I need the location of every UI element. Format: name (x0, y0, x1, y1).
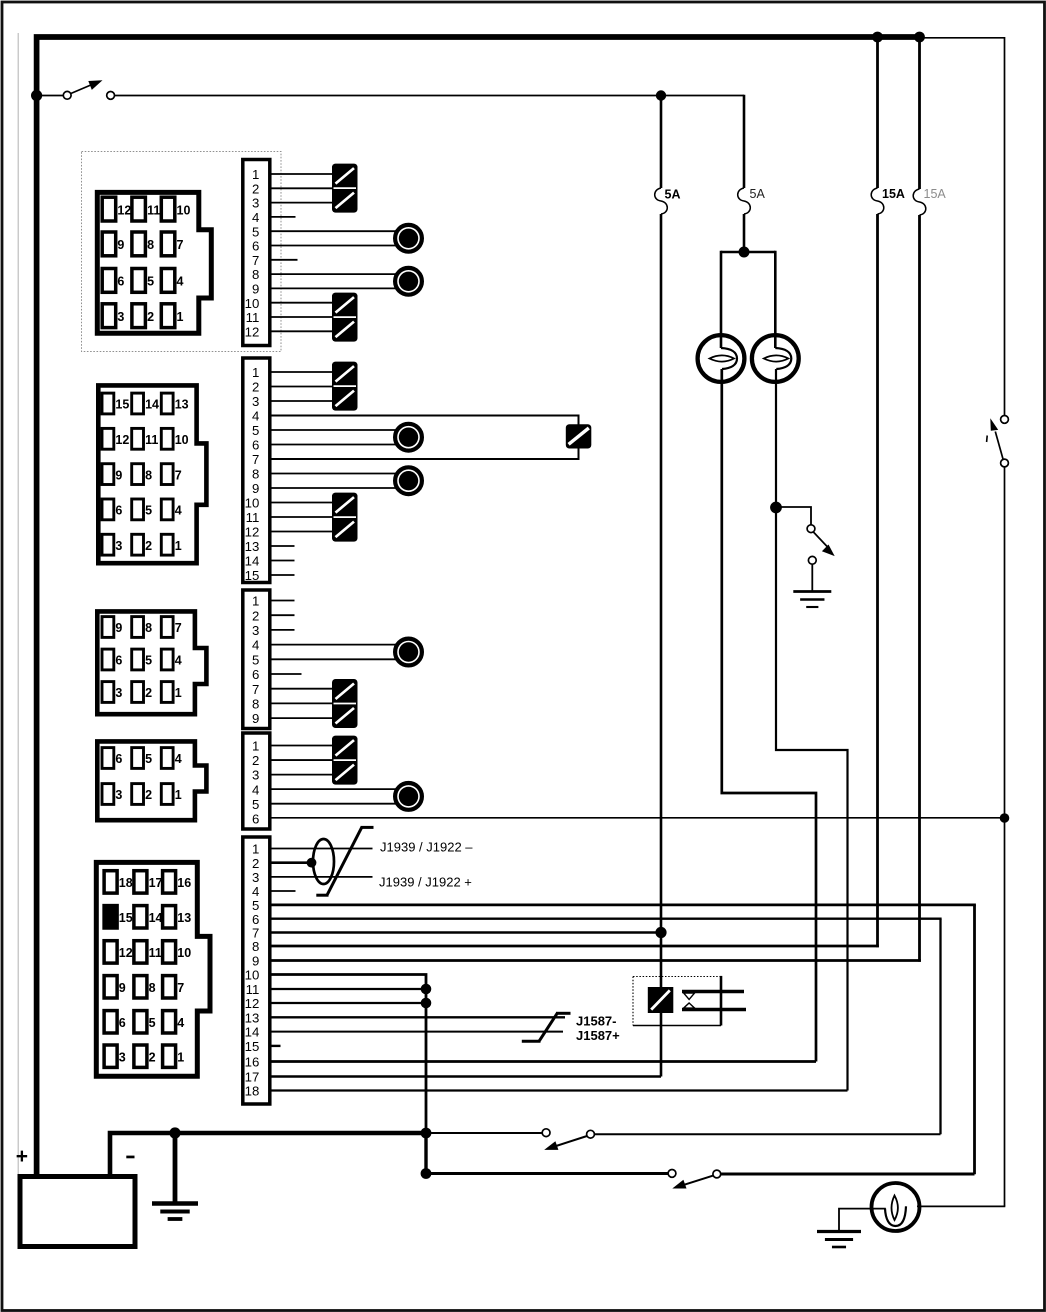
svg-text:10: 10 (245, 496, 260, 511)
terminal strip C1 (pins 1-12) (243, 160, 270, 346)
svg-text:12: 12 (245, 996, 260, 1011)
svg-text:3: 3 (115, 788, 122, 802)
svg-text:4: 4 (252, 782, 259, 797)
svg-text:6: 6 (252, 811, 259, 826)
svg-text:8: 8 (149, 981, 156, 995)
node: switch S1 tap on + bus (31, 90, 42, 101)
svg-text:2: 2 (252, 181, 259, 196)
svg-text:1: 1 (252, 842, 259, 857)
C2 pin5 wire (270, 429, 396, 431)
C5 pin16 wire (lamp L1 return) (270, 1060, 816, 1063)
svg-text:6: 6 (252, 667, 259, 682)
C2 pin1 wire (270, 371, 333, 373)
C4 pin5 wire (270, 803, 396, 805)
svg-text:15A: 15A (882, 187, 905, 201)
svg-text:8: 8 (252, 697, 259, 712)
connector C5 pins (104, 871, 117, 893)
svg-text:J1587+: J1587+ (576, 1028, 620, 1043)
svg-text:4: 4 (252, 210, 259, 225)
C1 pin6 wire (270, 245, 396, 247)
svg-text:2: 2 (252, 753, 259, 768)
speaker SP3 (C2 pins 1-3) (332, 362, 358, 411)
C2 pin8 wire (270, 473, 396, 475)
C5 pin13 wire (J1587 -) (270, 1016, 565, 1018)
svg-text:5: 5 (252, 898, 259, 913)
svg-text:5: 5 (252, 224, 259, 239)
svg-text:6: 6 (115, 752, 122, 766)
wire: + bus to switch S3 (920, 38, 1005, 416)
C2 pin4 wire (speaker +) (270, 416, 579, 425)
svg-text:9: 9 (252, 711, 259, 726)
svg-text:4: 4 (175, 654, 182, 668)
svg-text:7: 7 (175, 621, 182, 635)
svg-text:1: 1 (175, 788, 182, 802)
margin hairline (17, 33, 19, 1175)
svg-text:10: 10 (245, 296, 260, 311)
svg-text:12: 12 (119, 946, 133, 960)
C4 pin2 wire (270, 759, 333, 761)
node: fuse F4 tap on + bus (914, 32, 925, 43)
svg-text:2: 2 (252, 856, 259, 871)
switch S2 (dimmer to ground) (776, 507, 811, 525)
terminal strip C3 (pins 1-9) (243, 590, 270, 729)
svg-text:10: 10 (175, 433, 189, 447)
C2 pin12 wire (270, 531, 333, 533)
C2 pin6 wire (270, 444, 396, 446)
C2 pin10 wire (270, 502, 333, 504)
speaker SP7 (C4 pins 1-3) (332, 736, 358, 785)
wire: F1 to node A / relay coil (660, 214, 663, 987)
ground G1 (battery/chassis) (152, 1201, 198, 1205)
svg-text:6: 6 (119, 1016, 126, 1030)
wire: lamp L3 left lead to ground (839, 1209, 886, 1232)
svg-text:2: 2 (145, 788, 152, 802)
svg-text:8: 8 (252, 939, 259, 954)
svg-text:7: 7 (175, 468, 182, 482)
C2 pin2 wire (270, 386, 333, 388)
connector C3 body (97, 611, 206, 714)
C5 pin14 wire (J1587 +) (270, 1031, 563, 1033)
svg-text:9: 9 (119, 981, 126, 995)
twisted-pair shield loop (313, 839, 334, 884)
wire: link between switch nets (424, 1133, 427, 1174)
svg-text:8: 8 (252, 267, 259, 282)
C3 pin4 wire (270, 644, 396, 646)
C5 pin11 wire (270, 988, 426, 990)
svg-text:1: 1 (252, 739, 259, 754)
svg-text:14: 14 (149, 911, 163, 925)
svg-text:4: 4 (177, 275, 184, 289)
node: pin11 junction (421, 984, 432, 995)
connector plug P6 (C4 pins 4-5) (395, 783, 422, 810)
svg-text:4: 4 (252, 884, 259, 899)
svg-text:18: 18 (119, 876, 133, 890)
speaker SP1 (pins 1-3) (332, 164, 358, 213)
connector plug P5 (C3 pins 4-5) (395, 639, 422, 666)
wire: switched feed to fuses F1/F2 (115, 95, 745, 97)
C5 pin7 wire (to node A) (270, 931, 658, 933)
node: lamp pair split (739, 247, 750, 258)
svg-text:6: 6 (115, 504, 122, 518)
svg-text:8: 8 (145, 468, 152, 482)
C5 pin8 wire (from F3) (270, 945, 879, 948)
svg-text:16: 16 (177, 876, 191, 890)
svg-text:3: 3 (115, 539, 122, 553)
svg-text:6: 6 (115, 654, 122, 668)
wire: battery - riser (110, 1133, 426, 1177)
C2 pin11 wire (270, 516, 333, 518)
terminal strip C5 (pins 1-18) (243, 837, 270, 1104)
C1 pin1 wire (270, 173, 333, 175)
node: chassis ground tap (169, 1127, 180, 1138)
C3 pin6 stub (270, 673, 302, 675)
C5 pin10 wire (270, 975, 426, 1134)
svg-text:J1939 / J1922 –: J1939 / J1922 – (380, 839, 473, 854)
svg-text:1: 1 (252, 594, 259, 609)
svg-text:15A: 15A (924, 187, 947, 201)
C1 pin5 wire (270, 230, 396, 232)
svg-text:7: 7 (177, 238, 184, 252)
svg-text:9: 9 (252, 954, 259, 969)
svg-text:3: 3 (252, 623, 259, 638)
svg-text:10: 10 (177, 946, 191, 960)
svg-text:6: 6 (252, 438, 259, 453)
svg-text:12: 12 (115, 433, 129, 447)
svg-text:7: 7 (177, 981, 184, 995)
node: C5 pins10-12 to switch nets (421, 1128, 432, 1139)
lamp L2 (illumination) (752, 335, 799, 382)
svg-text:16: 16 (245, 1055, 260, 1070)
node: dimmer switch tap on L2 return (770, 502, 782, 514)
svg-text:5: 5 (252, 652, 259, 667)
svg-text:4: 4 (177, 1016, 184, 1030)
svg-text:5: 5 (145, 654, 152, 668)
C1 pin9 wire (270, 287, 396, 289)
svg-text:9: 9 (115, 468, 122, 482)
svg-text:7: 7 (252, 682, 259, 697)
C5 pin9 wire (from F4) (270, 959, 921, 962)
connector plug P3 (C2 pins 5-6) (395, 424, 422, 451)
svg-text:11: 11 (246, 982, 260, 997)
svg-text:7: 7 (252, 452, 259, 467)
svg-text:11: 11 (145, 433, 158, 447)
switch S5 (power antenna) (668, 1170, 676, 1178)
C5 pin17 wire (relay coil return) (270, 1075, 661, 1078)
J1587 data bus symbol (539, 1013, 557, 1041)
svg-text:15: 15 (245, 1039, 260, 1054)
C2 pin14 stub (270, 560, 295, 562)
wire: riser to C5 pin5 (973, 905, 976, 1174)
svg-text:12: 12 (117, 203, 131, 217)
C4 pin4 wire (270, 788, 396, 790)
svg-text:15: 15 (115, 398, 129, 412)
svg-text:13: 13 (245, 1010, 260, 1025)
C1 pin3 wire (270, 202, 333, 204)
C3 pin2 stub (270, 614, 295, 616)
C5 pin6 wire (270, 918, 942, 920)
wire: relay coil to C5 pin17 (660, 1013, 663, 1077)
svg-text:2: 2 (147, 310, 154, 324)
svg-text:7: 7 (252, 253, 259, 268)
connector C1 outline box (82, 152, 282, 352)
svg-text:9: 9 (115, 621, 122, 635)
wire: battery + bus (left and top feed) (37, 37, 921, 1176)
svg-text:5: 5 (252, 797, 259, 812)
wire: riser to C5 pin6 (939, 919, 941, 1134)
svg-text:3: 3 (252, 870, 259, 885)
node: pin12 junction (421, 998, 432, 1009)
svg-text:15: 15 (245, 568, 260, 583)
svg-text:8: 8 (147, 238, 154, 252)
svg-text:5A: 5A (750, 187, 766, 201)
C5 pin5 wire (270, 904, 976, 907)
svg-text:3: 3 (252, 196, 259, 211)
C3 pin5 wire (270, 658, 396, 660)
svg-text:3: 3 (252, 394, 259, 409)
svg-text:4: 4 (252, 409, 259, 424)
svg-text:J1939 / J1922 +: J1939 / J1922 + (379, 874, 472, 889)
wire: to switch S4 (426, 1132, 542, 1134)
C2 pin15 stub (270, 574, 295, 576)
wire: S3 to node B (1004, 467, 1006, 818)
svg-text:2: 2 (149, 1050, 156, 1064)
node A: F1 / connector C5 pin7 junction (655, 927, 666, 938)
svg-text:14: 14 (145, 398, 159, 412)
svg-text:14: 14 (245, 554, 260, 569)
svg-text:17: 17 (245, 1070, 260, 1085)
svg-text:13: 13 (175, 398, 189, 412)
svg-text:15: 15 (119, 911, 133, 925)
svg-text:2: 2 (252, 380, 259, 395)
C5 pin18 wire (lamp L2 return) (270, 1089, 848, 1091)
C4 pin6 wire (to node B) (270, 817, 1005, 819)
C1 pin10 wire (270, 302, 333, 304)
svg-text:13: 13 (245, 539, 260, 554)
wire: lamp L1 return (722, 369, 816, 1062)
C3 pin9 wire (270, 717, 333, 719)
speaker SP5 (C2 pins 4/7) (566, 424, 592, 448)
relay K1 contact 2 (682, 1008, 746, 1011)
svg-text:4: 4 (175, 504, 182, 518)
speaker SP2 (pins 10-12) (332, 293, 358, 342)
connector plug P1 (pins 5-6) (395, 225, 422, 252)
wire: F3 to connector C5 pin8 (876, 214, 879, 947)
svg-text:12: 12 (245, 324, 260, 339)
connector C4 pins (102, 748, 114, 769)
C5 pin4 stub (270, 890, 296, 892)
connector C1 pins (102, 197, 116, 221)
J1939 data bus symbol (327, 827, 362, 895)
node: shield terminator (307, 858, 317, 868)
C5 pin12 wire (270, 1002, 426, 1004)
wire: S4 to riser (594, 1133, 940, 1135)
C2 pin13 stub (270, 545, 295, 547)
C1 pin7 stub (270, 259, 298, 261)
svg-text:5: 5 (147, 275, 154, 289)
ground G3 (lamp L3) (817, 1230, 861, 1233)
svg-text:13: 13 (177, 911, 191, 925)
svg-text:10: 10 (177, 203, 191, 217)
connector C3 pins (102, 617, 114, 638)
C3 pin3 stub (270, 629, 295, 631)
svg-text:8: 8 (252, 467, 259, 482)
C2 pin3 wire (270, 400, 333, 402)
C1 pin12 wire (270, 330, 333, 332)
fuse F2 5A (743, 95, 746, 188)
connector C2 body (98, 385, 206, 563)
svg-text:3: 3 (252, 768, 259, 783)
wire: lamp L2 return (776, 369, 848, 1091)
relay K1 coil (diode block) (648, 987, 674, 1013)
C5 pin3 wire (J1939 +) (270, 876, 373, 878)
svg-text:9: 9 (252, 282, 259, 297)
svg-text:11: 11 (246, 310, 260, 325)
svg-text:4: 4 (252, 638, 259, 653)
svg-text:17: 17 (149, 876, 163, 890)
svg-text:5A: 5A (665, 187, 681, 201)
svg-text:6: 6 (252, 239, 259, 254)
speaker SP4 (C2 pins 10-12) (332, 493, 358, 542)
switch S3 (memory feed) (1001, 416, 1009, 424)
C1 pin11 wire (270, 316, 333, 318)
svg-text:5: 5 (149, 1016, 156, 1030)
svg-text:3: 3 (117, 310, 124, 324)
connector C2 pins (102, 393, 114, 414)
lamp L3 (antenna/amp indicator) (872, 1183, 920, 1231)
C4 pin3 wire (270, 774, 333, 776)
svg-text:11: 11 (246, 510, 260, 525)
C1 pin8 wire (270, 273, 396, 275)
relay K1 outline (632, 977, 634, 1026)
svg-text:3: 3 (119, 1050, 126, 1064)
wire: node B down to lamp L3 (1004, 818, 1006, 1206)
C2 pin9 wire (270, 487, 396, 489)
wire: lamp split bar (721, 251, 775, 254)
wire: lamp L3 right lead (917, 1205, 1005, 1207)
wire: S5 feed (426, 1172, 668, 1175)
svg-text:5: 5 (145, 504, 152, 518)
svg-text:12: 12 (245, 525, 260, 540)
C3 pin8 wire (270, 702, 333, 704)
C2 pin7 wire (speaker -) (270, 448, 579, 459)
node: switch S5 feed (421, 1168, 432, 1179)
connector C5 body (96, 862, 210, 1076)
svg-text:1: 1 (175, 686, 182, 700)
svg-text:8: 8 (145, 621, 152, 635)
relay K1 contact 1 (682, 990, 744, 993)
svg-text:10: 10 (245, 968, 260, 983)
svg-text:2: 2 (145, 539, 152, 553)
svg-text:1: 1 (252, 167, 259, 182)
C3 pin1 stub (270, 600, 295, 602)
svg-text:5: 5 (252, 423, 259, 438)
connector C1 body (97, 192, 211, 333)
terminal strip C4 (pins 1-6) (243, 733, 270, 829)
svg-text:11: 11 (149, 946, 162, 960)
svg-text:1: 1 (252, 365, 259, 380)
fuse F4 15A (918, 37, 921, 189)
node: fuse F1 tap (656, 90, 666, 100)
svg-text:2: 2 (252, 608, 259, 623)
connector plug P4 (C2 pins 8-9) (395, 467, 422, 494)
speaker SP6 (C3 pins 7-9) (332, 679, 358, 728)
switch S4 (mute/hands-free) (542, 1129, 550, 1137)
svg-text:14: 14 (245, 1025, 260, 1040)
svg-text:18: 18 (245, 1084, 260, 1099)
C4 pin1 wire (270, 745, 333, 747)
ground G2 (dimmer switch) (793, 590, 831, 593)
svg-text:+: + (16, 1145, 28, 1168)
svg-text:J1587-: J1587- (576, 1013, 616, 1028)
connector C4 body (97, 741, 206, 820)
svg-text:2: 2 (145, 686, 152, 700)
battery - label (126, 1156, 134, 1159)
svg-text:3: 3 (115, 686, 122, 700)
wire: drop to ground G1 (173, 1133, 178, 1204)
svg-text:6: 6 (117, 275, 124, 289)
svg-text:4: 4 (175, 752, 182, 766)
battery B1 (20, 1177, 135, 1247)
node B: C4 pin6 / lamp L3 junction (1000, 813, 1010, 823)
wire: F4 to connector C5 pin9 (918, 215, 921, 962)
node: fuse F3 tap on + bus (872, 32, 883, 43)
svg-text:1: 1 (177, 310, 184, 324)
C3 pin7 wire (270, 688, 333, 690)
C5 pin15 stub (270, 1045, 281, 1047)
wire: S2 to ground (811, 564, 813, 591)
wire: F2 to lamp pair node (743, 214, 746, 252)
svg-text:9: 9 (117, 238, 124, 252)
terminal strip C2 (pins 1-15) (243, 358, 270, 583)
lamp L1 (illumination) (698, 335, 745, 382)
C5 pin1 wire (J1939 -) (270, 848, 373, 850)
wire: drop to lamp L1 (720, 251, 723, 348)
wire: drop to lamp L2 (774, 251, 777, 348)
svg-text:1: 1 (177, 1050, 184, 1064)
C1 pin4 stub (270, 216, 296, 218)
C5 pin2 wire (shield) (270, 861, 311, 864)
svg-text:11: 11 (147, 203, 160, 217)
svg-text:1: 1 (175, 539, 182, 553)
fuse F1 5A (660, 96, 663, 189)
wire: S5 to riser (721, 1173, 975, 1176)
C1 pin2 wire (270, 187, 333, 189)
svg-text:6: 6 (252, 912, 259, 927)
fuse F3 15A (876, 37, 879, 188)
switch S1 (main power switch) (42, 95, 63, 97)
svg-text:9: 9 (252, 481, 259, 496)
connector plug P2 (pins 8-9) (395, 268, 422, 295)
svg-text:5: 5 (145, 752, 152, 766)
